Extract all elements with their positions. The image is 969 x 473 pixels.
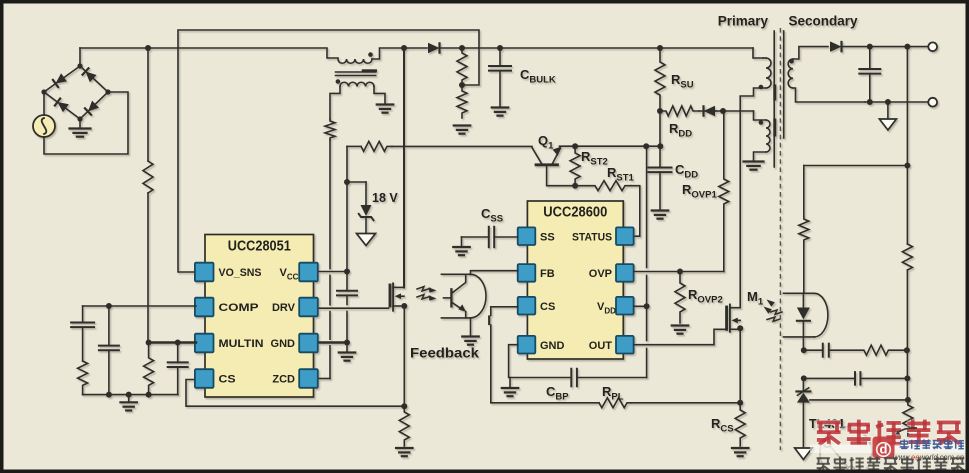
wire FB pin to opto [471,271,518,275]
svg-text:CS: CS [219,374,236,386]
resistor R-multin [144,343,154,395]
pin OUT UCC28600 [589,336,634,354]
diode D_DD [699,105,723,117]
resistor divider lower [457,85,467,118]
label Feedback [410,345,479,361]
label R_OVP2 [688,287,723,306]
label C_SS [481,206,503,225]
wire fb divider mid [906,166,908,400]
wire Q1 emitter rail [560,143,664,149]
wire T1 bias bottom lead [754,152,767,162]
capacitor C-comp2 [99,306,119,395]
capacitor C-out [859,47,880,102]
wire opto LED feed [803,166,805,218]
label 18 V [372,191,398,205]
junction ref row [905,397,911,403]
watermark white band [810,445,966,454]
junction R_SU bottom [657,108,663,114]
junction sense node [904,163,910,169]
wire bulk rail to primary [753,48,763,58]
wire comp ground rail [83,392,178,398]
resistor R-q1base [361,141,392,151]
svg-text:18 V: 18 V [372,191,398,205]
resistor R-fb-upper [902,244,912,270]
svg-text:DRV: DRV [272,302,296,314]
wire PFC source [403,306,405,406]
label R_CS [711,416,734,435]
svg-text:UCC28600: UCC28600 [543,205,607,221]
capacitor C_BP [571,369,646,387]
resistor R-zcd [325,119,335,140]
svg-text:d: d [880,442,888,457]
pin GND UCC28051 [271,334,318,353]
T1 bias winding lead [754,111,767,120]
capacitor C-multin [168,343,188,395]
resistor R_SU [655,48,665,111]
junction comp row2 right [904,375,910,381]
wire R_PL to M1 source [631,402,740,404]
pin DRV UCC28051 [272,298,318,317]
L1 aux winding [340,82,374,86]
pin VO_SNS UCC28051 [195,263,262,282]
label C_BP [546,384,569,403]
label R_DD [669,121,692,140]
wire COMP row [83,303,196,309]
phase dot T1 bias [759,120,764,125]
label M1 [747,289,764,308]
wire Q1 collector lead [392,145,532,147]
pin COMP UCC28051 [195,298,259,317]
wire output bottom rail [865,99,928,105]
label R_PL [602,384,624,403]
ground triangle at zener [357,234,376,246]
resistor R_OVP2 [675,272,685,324]
label R_SU [671,72,694,91]
resistor R-comp [78,361,88,395]
pin MULTIN UCC28051 [195,334,264,353]
junction R_ST2 bottom [572,183,578,189]
resistor R_PL [599,398,631,408]
bridge diode D2 (top-right edge) [82,67,97,82]
pin STATUS UCC28600 [572,227,634,245]
junction VDD tap [644,303,650,309]
ground at C_SS [453,237,470,255]
wire Q1 base lead [547,166,576,186]
label C_DD [675,162,698,181]
pin SS UCC28600 [518,227,555,245]
T1 primary winding [763,58,771,88]
watermark logo faint circles [820,427,872,473]
wire OVP row [634,271,724,273]
wire VO_SNS feedback rail A [178,30,479,272]
resistor R-fb-lower [903,400,913,436]
phase dot T1 primary [759,85,764,90]
pin FB UCC28600 [518,264,555,282]
ground at UCC28600 GND [502,378,519,397]
svg-text:Primary: Primary [718,14,769,29]
pin ZCD UCC28051 [272,369,317,388]
wire MULTIN row [146,340,196,346]
resistor R-led [799,217,809,242]
boost diode D5 [404,42,462,54]
svg-text:OUT: OUT [589,340,613,352]
wire L1 to boost diode junction [372,48,404,59]
capacitor C_SS [462,227,518,248]
resistor R_ST2 [570,146,580,186]
zener diode 18V [359,182,374,234]
wire L1 aux right lead [374,87,385,105]
label R_ST1 [607,165,635,184]
wire T1 secondary top lead [793,47,828,59]
wire VCC pin [318,271,347,273]
watermark gray chinese row [817,457,965,471]
wire input rail to boost inductor [80,48,338,58]
junction output fb top [904,44,910,50]
label Q1 [538,133,554,152]
ground at C_BULK [492,108,509,116]
wire VDD bypass vertical [646,146,648,377]
junction VO sense divider [459,82,465,88]
capacitor C_BULK [489,48,511,108]
TL431 U5 [796,378,810,448]
op-amp U2 UCC28600 body [527,201,623,359]
junction zener tap [344,179,350,185]
phototransistor U3 [444,274,466,318]
junction comp row1 right [904,347,910,353]
junction M1 sense node [737,400,743,406]
wire PFC drain [403,48,405,287]
pin CS UCC28051 [195,369,236,388]
ground triangle TL431 [795,448,813,460]
wire CS pin run [186,380,404,407]
T1 core [774,31,784,167]
ground at L1 aux [377,105,394,113]
bridge rectifier diamond wires [41,63,110,121]
pin VCC UCC28051 [280,263,318,282]
resistor R_ST1 [575,181,631,191]
bridge diode D1 (top-left edge) [52,73,67,88]
watermark blue chinese [900,439,964,449]
ground at VO divider [454,126,471,134]
ground at PFC sense [396,448,413,456]
watermark eeworld logo [873,428,918,458]
watermark red chinese title [817,420,961,445]
isolation dashed line [779,28,781,450]
phase dot L1 aux [336,79,341,84]
resistor R_CS [735,403,745,446]
wire GND pin UCC28051 [318,341,347,343]
svg-text:Secondary: Secondary [789,14,859,29]
phase dot L1 main [368,52,373,57]
wire node A rail [723,110,754,112]
pin VDD UCC28600 [597,297,634,316]
junction PFC source [401,303,407,309]
wire LED lead [803,242,805,293]
optocoupler U4 package [784,293,828,337]
svg-text:ZCD: ZCD [272,374,295,386]
wire bridge output riser [79,48,81,66]
ground at C_DD [652,211,669,219]
svg-text:Feedback: Feedback [410,345,479,361]
resistor R-acsense [143,161,153,193]
junction VCC wire [344,269,350,275]
label Secondary [789,14,859,29]
ground at R_OVP2 [672,326,689,334]
resistor R_OVP1 [719,111,729,272]
LED U4 [797,293,810,350]
ground at UCC28051 GND [339,343,356,361]
wire T1 secondary bottom lead [793,88,865,102]
wire R_ST1 to STATUS pin [631,186,640,237]
svg-text:GND: GND [540,340,565,352]
svg-text:SS: SS [540,231,555,243]
ground at bridge negative node [70,119,91,137]
T1 secondary winding [788,59,793,88]
light arrows U3 [417,287,437,301]
svg-text:UCC28051: UCC28051 [228,239,291,255]
wire OUT to M1 gate [634,329,725,344]
wire VCC vertical [346,146,348,342]
bridge diode D3 (bottom-left edge) [54,98,69,113]
junction current sense node [401,403,407,409]
label R_ST2 [581,149,608,168]
wire T1 primary bottom lead [740,88,766,111]
wire GND pin run UCC28600 [509,345,572,378]
svg-text:MULTIN: MULTIN [219,338,264,350]
junction boost diode output [401,45,407,51]
output diode D6 [830,41,928,53]
resistor divider upper (VO sense) [457,48,467,85]
wire TL431 ref row [810,399,908,401]
junction R_OVP2 top [677,269,683,275]
MOSFET M1 [727,305,741,332]
wire CS pin run UCC28600 [489,307,599,403]
junction opto cathode [801,347,807,353]
label R_OVP1 [682,182,717,201]
terminal VOUT+ [928,42,937,51]
ground at comp rail [120,395,137,411]
wire VCC supply to Q1 [347,145,361,147]
junction opto row2 [801,375,807,381]
label Primary [718,14,769,29]
svg-text:COMP: COMP [219,302,259,314]
watermark url [893,452,964,462]
wire output sense drop [906,47,908,166]
label TL431 [809,417,845,431]
AC source V1 [33,115,55,137]
L1 core [336,71,376,76]
wire AC sense vertical [147,48,149,343]
light arrows U4 [764,300,783,322]
junction VCC cap bottom [344,340,350,346]
MOSFET M-pfc [390,283,404,310]
compensation row 1 [804,344,829,357]
op-amp U1 UCC28051 body [205,235,314,398]
label C_BULK [520,67,556,86]
capacitor C-comp1 [71,306,94,361]
compensation row 2 [804,372,908,385]
capacitor C-vcc [337,291,357,296]
ground at T1 bias [744,162,764,170]
pin GND UCC28600 [518,336,565,354]
svg-text:VO_SNS: VO_SNS [219,267,262,279]
wire AC return loop [44,92,128,154]
wire M1 source [739,329,741,403]
wire AC source to bridge left node [43,92,45,115]
wire bulk rail [459,45,753,51]
transistor Q1 [532,147,561,165]
wire ZCD sense vertical [318,140,330,379]
junction output cap top [867,44,873,50]
ground at R_CS [732,448,749,456]
terminal VOUT- [928,98,937,107]
wire VDD pin [634,305,647,307]
junction node A [720,108,726,114]
boost inductor L1 main winding [338,59,372,63]
ground at opto emitter [462,318,479,345]
wire zener jog [347,181,366,183]
resistor R_DD [660,106,699,116]
optocoupler U3 package [441,274,486,318]
svg-text:OVP: OVP [589,268,612,280]
wire DRV to gate [318,307,389,309]
wire sense row [804,165,908,167]
wire L1 aux left lead [330,87,340,120]
svg-text:FB: FB [540,268,555,280]
phase dot T1 secondary [789,59,794,64]
junction M1 source body [737,325,743,331]
svg-text:GND: GND [271,338,296,350]
svg-text:CS: CS [540,301,555,313]
junction on input rail [145,45,151,51]
T1 bias winding [766,120,770,152]
ground triangle secondary [879,102,896,130]
pin CS UCC28600 [518,297,556,315]
resistor R-cs-pfc [399,406,409,446]
wire M1 drain [739,111,741,308]
resistor R-comp2 [829,345,908,355]
bridge diode D4 (bottom-right edge) [84,100,99,115]
capacitor C_DD [649,111,672,211]
pin OVP UCC28600 [589,264,634,282]
svg-text:STATUS: STATUS [572,231,612,243]
